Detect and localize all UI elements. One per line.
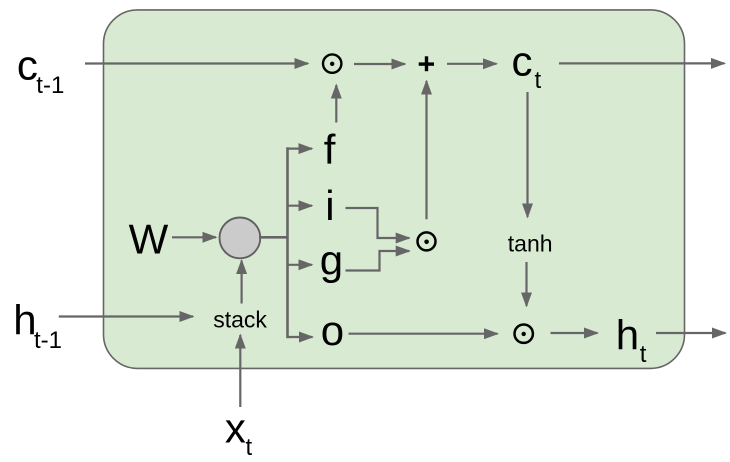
op-amp mult C (elementwise product, bottom) xyxy=(515,325,533,343)
svg-text:stack: stack xyxy=(213,306,267,332)
wire o gate to mult C xyxy=(349,333,498,335)
wire bus to f gate xyxy=(288,148,313,150)
gate bus vertical xyxy=(288,149,289,337)
svg-text:i: i xyxy=(325,182,334,229)
wire stack up into circle xyxy=(241,261,243,304)
svg-text:f: f xyxy=(324,126,336,173)
svg-text:t: t xyxy=(246,434,253,461)
wire bus to o gate xyxy=(288,336,313,338)
op-amp mult A (elementwise product, top) xyxy=(323,54,341,72)
wire h_t-1 into stack xyxy=(59,315,193,317)
plus operator xyxy=(419,56,434,71)
wire tanh down into mult C xyxy=(525,262,527,306)
svg-text:tanh: tanh xyxy=(508,231,553,257)
wire c_t out of cell xyxy=(559,62,725,64)
LSTM cell body (rounded rect) xyxy=(104,10,685,369)
wire mult C to h_t xyxy=(551,332,598,334)
stack circle (gray node) xyxy=(220,218,261,259)
wire h_t out of cell xyxy=(656,332,726,334)
svg-text:W: W xyxy=(129,215,169,262)
svg-text:c: c xyxy=(512,38,533,85)
svg-text:x: x xyxy=(225,405,246,452)
svg-text:t: t xyxy=(535,67,542,94)
wire c_t-1 into cell xyxy=(85,62,308,64)
svg-text:t: t xyxy=(640,341,647,368)
wire stack circle to gate bus xyxy=(259,236,289,239)
wire c_t down toward tanh xyxy=(526,92,528,217)
svg-text:t-1: t-1 xyxy=(36,72,64,99)
wire mult B up into plus xyxy=(425,81,427,219)
svg-text:g: g xyxy=(320,237,343,284)
wire plus to c_t xyxy=(447,63,497,65)
svg-text:c: c xyxy=(17,42,38,89)
wire i gate into mult B xyxy=(346,208,410,238)
op-amp mult B (elementwise product, middle) xyxy=(418,232,436,250)
svg-text:o: o xyxy=(321,307,344,354)
svg-text:h: h xyxy=(616,311,639,358)
wire g gate into mult B xyxy=(346,251,410,271)
wire W into stack circle xyxy=(172,236,216,238)
wire x_t up into stack xyxy=(239,335,241,407)
wire bus to g gate xyxy=(288,264,313,266)
svg-text:t-1: t-1 xyxy=(34,327,62,354)
wire mult A to plus xyxy=(354,63,405,65)
wire bus to i gate xyxy=(288,205,313,207)
wire f gate up into mult A xyxy=(335,85,337,123)
